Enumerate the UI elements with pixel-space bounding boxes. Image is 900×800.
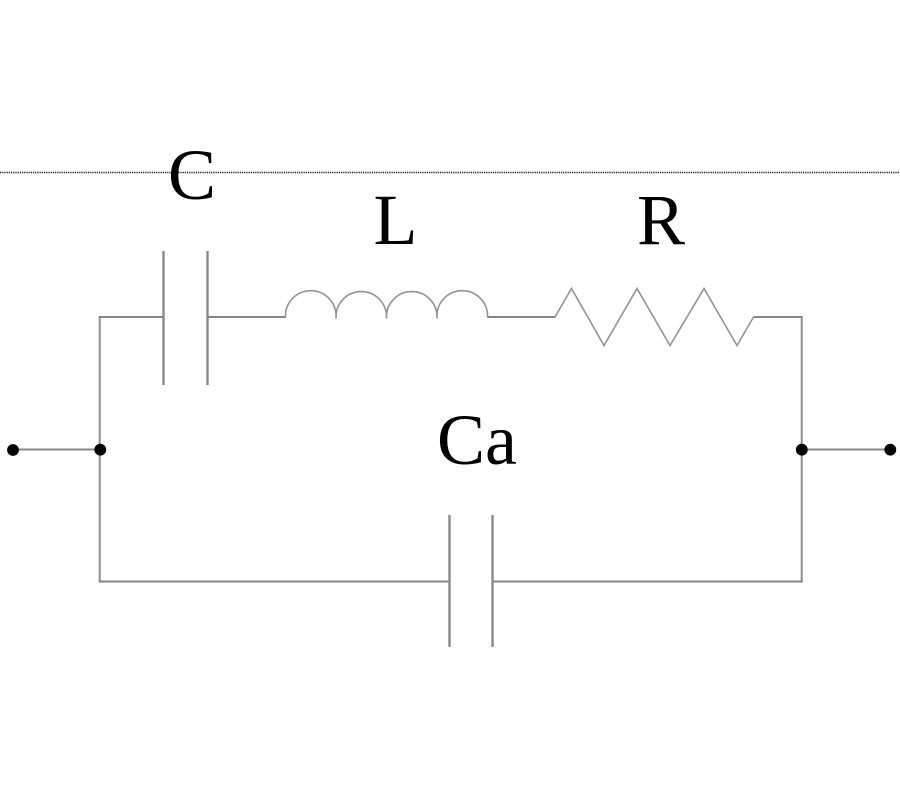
wire right terminal	[802, 449, 890, 451]
wire R-to-node	[754, 316, 803, 318]
capacitor Ca	[450, 515, 493, 647]
wire C-to-L	[208, 316, 286, 318]
wire left terminal	[13, 449, 100, 451]
svg-text:L: L	[374, 180, 418, 260]
wire bottom rail left	[99, 581, 449, 583]
wire L-to-R	[488, 316, 556, 318]
capacitor C	[164, 251, 208, 385]
dotted horizontal rule	[0, 172, 900, 174]
wire node-to-C	[99, 316, 163, 318]
inductor L	[285, 291, 487, 319]
node left junction dot	[94, 444, 106, 456]
resistor R	[555, 289, 754, 346]
svg-text:C: C	[168, 135, 216, 215]
node right junction dot	[796, 444, 808, 456]
wire bottom rail right	[493, 581, 803, 583]
node left terminal dot	[7, 444, 19, 456]
svg-text:Ca: Ca	[437, 400, 517, 480]
wire left vertical	[99, 316, 101, 582]
svg-text:R: R	[637, 180, 685, 260]
node right terminal dot	[884, 444, 896, 456]
wire right vertical	[801, 316, 803, 582]
